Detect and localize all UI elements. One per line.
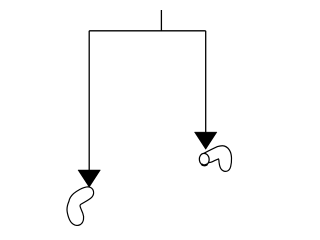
arrowhead right [194, 132, 217, 149]
wire: left drop [88, 31, 90, 171]
node: right blob ellipse bottom thick arc [201, 164, 207, 165]
node: right blob (elbow tube) body [204, 146, 232, 172]
wire: top stub [160, 10, 162, 31]
arrowhead left [78, 170, 101, 187]
wire: right drop [205, 31, 207, 133]
node: left blob (bean shape) [67, 187, 94, 226]
node: right blob opening ellipse [199, 153, 210, 166]
wire: horizontal bar [89, 30, 206, 32]
